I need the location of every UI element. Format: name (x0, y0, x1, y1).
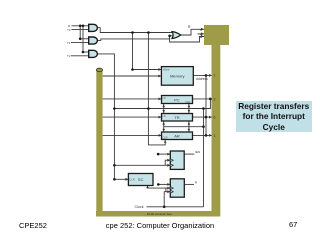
wire LD row TR-AR (164, 126, 204, 128)
wire T1 input gate B (71, 42, 89, 44)
svg-text:2: 2 (214, 97, 216, 101)
bus bar bottom (96, 211, 220, 217)
svg-text:Clock: Clock (135, 205, 144, 209)
bus bar right (212, 45, 221, 211)
footer left CPE252 (19, 221, 47, 230)
wire bar to PC in (103, 98, 162, 100)
bus bar left cap (96, 68, 102, 71)
wire bar to memory data in (103, 75, 162, 77)
wire bar to AR in (103, 134, 162, 136)
wire gate B top input (80, 38, 89, 40)
svg-text:LD: LD (162, 114, 165, 118)
bus width tick 3 (200, 35, 202, 38)
footer center (0, 221, 320, 230)
wire FF1 output IEN (184, 153, 194, 155)
wire TR out to bus (193, 116, 213, 118)
memory unit (161, 67, 193, 86)
register PC (162, 96, 193, 104)
wire R input gate A (72, 25, 90, 27)
svg-text:7: 7 (214, 74, 216, 78)
wire R rail vertical 1 (79, 26, 81, 39)
wire T2 input gate C (71, 55, 89, 57)
wire PC out to bus (193, 98, 213, 100)
svg-text:16-bit common bus: 16-bit common bus (147, 212, 172, 216)
wire R rail vertical 2 (82, 26, 84, 52)
wire gate A output to OR input 1 (97, 28, 173, 33)
svg-text:T2: T2 (67, 54, 71, 58)
flip-flop R (170, 179, 184, 197)
wire AR out to bus (193, 134, 213, 136)
and gate A (89, 24, 98, 31)
svg-text:CLR: CLR (162, 136, 167, 140)
callout: Register transfers for the Interrupt Cycle (236, 101, 313, 132)
svg-text:Memory: Memory (170, 74, 184, 79)
wire select stub S1 (198, 33, 205, 35)
svg-text:R: R (195, 180, 198, 184)
wire bus feedback v2 (205, 75, 207, 135)
wire PC LD stub 2 (188, 104, 190, 114)
flip-flop IEN (170, 151, 184, 169)
wire R wrap to stub S2 (170, 36, 204, 42)
register TR (162, 114, 193, 122)
bus width tick 1 (200, 28, 202, 31)
svg-text:PC: PC (174, 97, 180, 102)
wire T0 input gate A (72, 29, 90, 31)
wire FF2 set input (158, 183, 170, 185)
svg-text:TR: TR (174, 115, 179, 120)
and gate C (89, 50, 98, 57)
wire PC LD stub 1 (163, 104, 165, 114)
bus bar left (96, 70, 102, 212)
arrowheads (125, 28, 212, 193)
wire gate C output rail (97, 54, 115, 179)
wire FF2 clock input from clock line (164, 192, 170, 207)
svg-text:R: R (188, 25, 191, 29)
wire FF1 clock input (114, 164, 170, 166)
svg-text:Address: Address (196, 77, 208, 81)
wire TR LD stub 2 (188, 121, 190, 132)
wire FF1 set input (158, 153, 170, 155)
sequence counter SC (128, 174, 153, 186)
wire FF2 clock input (148, 186, 171, 189)
wire FF1 clock bracket (165, 160, 170, 165)
register AR (162, 132, 193, 140)
wire bar to TR in (103, 116, 162, 118)
wire clock line (147, 206, 204, 208)
svg-text:LD: LD (162, 96, 165, 100)
svg-text:T0: T0 (67, 28, 71, 32)
wire FF2 output R (184, 183, 194, 185)
svg-text:IEN: IEN (195, 150, 200, 154)
svg-text:CLR: CLR (129, 178, 134, 182)
or gate U1 (172, 32, 181, 39)
bus width tick 2 (200, 33, 202, 36)
wire TR LD stub 1 (163, 121, 165, 132)
wire OR output to bus box stub 1 (181, 29, 204, 35)
wire bus feedback v1 (203, 109, 205, 207)
wire gate B output to OR input 2 (97, 36, 173, 41)
wire vertical to memory write (133, 33, 162, 70)
bus box top right (204, 25, 229, 45)
and gate B (89, 37, 98, 44)
wire FF2 bracket (165, 188, 167, 192)
wire vertical x148 down to AR bottom (148, 33, 165, 145)
wire SC input (114, 178, 128, 180)
svg-text:SC: SC (138, 177, 144, 182)
svg-text:T1: T1 (67, 41, 71, 45)
svg-text:AR: AR (174, 134, 180, 139)
wire LD row PC-TR (114, 99, 210, 109)
svg-text:Write: Write (163, 68, 170, 72)
svg-text:INR: INR (186, 100, 191, 104)
wire gate C top input (83, 51, 89, 53)
svg-text:6: 6 (214, 116, 216, 120)
footer right page 67 (289, 220, 297, 229)
wire memory address to bus (193, 74, 212, 76)
svg-text:1: 1 (214, 134, 216, 138)
